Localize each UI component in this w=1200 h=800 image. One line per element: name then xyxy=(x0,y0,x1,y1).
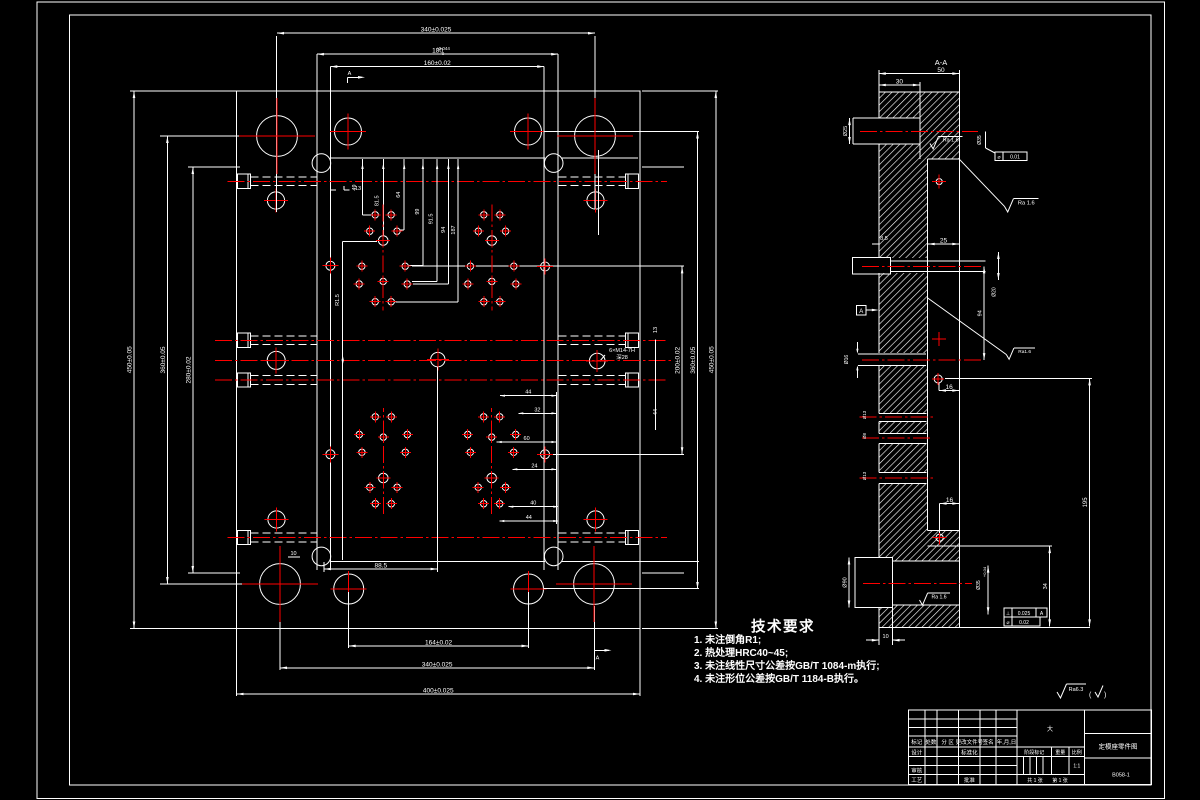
guide hole top-left xyxy=(239,98,315,174)
svg-text:30: 30 xyxy=(896,79,904,86)
pocket outer-left edge line xyxy=(316,54,318,570)
section hatching xyxy=(879,92,960,627)
section centerline hole6 xyxy=(860,477,935,479)
svg-text:Ø13: Ø13 xyxy=(862,471,867,480)
section centerline bushing2 xyxy=(862,265,984,267)
svg-text:195: 195 xyxy=(1083,497,1089,508)
svg-text:定模座零件图: 定模座零件图 xyxy=(1099,742,1138,751)
svg-text:Ø20: Ø20 xyxy=(992,287,998,297)
section bore left wall lower xyxy=(878,608,880,628)
leader med hole left xyxy=(342,241,377,560)
section hole circle y379 xyxy=(932,373,944,385)
section body top and right edges xyxy=(879,92,960,627)
tie bar row4 centerline xyxy=(228,537,668,539)
roughness bore xyxy=(920,593,951,605)
section hole3 xyxy=(856,342,926,378)
corner hole top-left xyxy=(264,189,288,213)
pocket inner-left edge line xyxy=(329,67,331,570)
ext line through corner hole top-right xyxy=(598,150,600,235)
guide hole bottom-left xyxy=(242,546,318,622)
dim 340 bottom xyxy=(280,606,594,670)
dim 16 upper xyxy=(939,383,959,392)
svg-text:10: 10 xyxy=(290,551,296,557)
svg-text:B058-1: B058-1 xyxy=(1112,773,1130,779)
tie bar row3 centerline xyxy=(215,379,667,381)
tie bar row1 centerline xyxy=(228,180,668,182)
svg-text:+0.04: +0.04 xyxy=(982,566,987,577)
label R1.5 left xyxy=(335,294,341,306)
pocket edge hole left-lower xyxy=(322,446,338,462)
dim phi16 hole3 xyxy=(844,355,850,365)
hole cluster bottom-left xyxy=(354,408,413,514)
pocket inner-right edge line xyxy=(543,67,545,570)
center horizontal centerline xyxy=(215,359,672,361)
section centerline hole3 xyxy=(862,359,984,361)
dim 94 right xyxy=(978,266,986,360)
svg-text:阶段标记: 阶段标记 xyxy=(1024,749,1044,756)
svg-text:400±0.025: 400±0.025 xyxy=(423,688,454,695)
red crosshair overlays xyxy=(239,98,633,622)
medium hole bottom-left xyxy=(331,571,367,607)
tie bar row3 xyxy=(237,373,638,387)
pocket bottom edge xyxy=(330,560,699,562)
svg-text:深28: 深28 xyxy=(616,353,628,361)
section line y546 xyxy=(928,545,1052,547)
corner hole top-right xyxy=(584,189,608,213)
svg-text:年,月,日: 年,月,日 xyxy=(997,738,1017,746)
svg-text:60: 60 xyxy=(524,436,530,442)
svg-text:99: 99 xyxy=(415,209,421,215)
dim 25 section xyxy=(928,238,960,257)
section hole6 lines xyxy=(879,473,927,484)
svg-text:批准: 批准 xyxy=(964,776,976,784)
section left edge mid4 xyxy=(878,422,880,434)
section bushing1 xyxy=(853,118,920,144)
svg-text:280±0.02: 280±0.02 xyxy=(185,356,192,383)
svg-text:4. 未注形位公差按GB/T 1184-B执行。: 4. 未注形位公差按GB/T 1184-B执行。 xyxy=(694,672,864,685)
svg-text:0.025: 0.025 xyxy=(1018,611,1031,617)
dim 8.5 section xyxy=(872,236,888,244)
guide hole bottom-right xyxy=(556,546,632,622)
svg-text:Ø8: Ø8 xyxy=(862,433,867,440)
dim 16 lower xyxy=(940,497,960,533)
plan plate outline xyxy=(237,91,641,629)
technical requirements text xyxy=(694,618,880,686)
section pocket bottom edge xyxy=(928,529,960,531)
svg-text:8.5: 8.5 xyxy=(880,236,888,242)
hole cluster top-right xyxy=(462,205,521,311)
dim phi90 bore left xyxy=(843,558,851,608)
svg-text:34: 34 xyxy=(1043,583,1049,589)
medium hole top-left xyxy=(330,114,366,150)
section arrow A bottom-right xyxy=(594,649,611,662)
svg-text:Ø16: Ø16 xyxy=(844,355,850,365)
extension line y454 right xyxy=(552,453,684,455)
svg-text:1. 未注倒角R1;: 1. 未注倒角R1; xyxy=(694,633,761,646)
section bottom edge xyxy=(879,626,1090,628)
section centerline hole5 xyxy=(862,437,933,439)
svg-text:R1.5: R1.5 xyxy=(335,294,341,306)
svg-text:第 1 张: 第 1 张 xyxy=(1052,777,1068,784)
section centerline hole4 xyxy=(860,416,935,418)
svg-text:Ø35: Ø35 xyxy=(977,135,983,145)
svg-text:A: A xyxy=(596,656,600,662)
pocket outer-right edge line xyxy=(557,54,559,570)
leader roughness pocket wall xyxy=(959,159,1038,212)
leader roughness pocket wall 2 xyxy=(928,298,1035,359)
svg-text:更改文件号: 更改文件号 xyxy=(956,738,984,746)
pocket edge hole right-upper xyxy=(537,259,553,275)
dim 360 left xyxy=(160,136,260,584)
dim 280 left xyxy=(185,167,240,573)
svg-text:40: 40 xyxy=(530,501,536,507)
tie bar row4 xyxy=(237,530,638,544)
svg-text:处数: 处数 xyxy=(925,738,937,746)
medium hole bottom-right xyxy=(511,571,547,607)
svg-text:88.5: 88.5 xyxy=(374,563,387,570)
svg-text:160±0.02: 160±0.02 xyxy=(424,60,451,67)
svg-text:A: A xyxy=(859,309,863,315)
svg-text:分 区: 分 区 xyxy=(941,738,954,746)
title block right section xyxy=(1085,710,1152,785)
dim 340 top xyxy=(277,27,596,212)
section arrow A top-left xyxy=(348,71,366,83)
L ticks pocket top-left xyxy=(331,186,350,190)
svg-text:13: 13 xyxy=(355,186,361,192)
section left edge mid3 xyxy=(878,366,880,414)
svg-text:360±0.05: 360±0.05 xyxy=(160,346,167,373)
dim 30 section top xyxy=(879,79,920,93)
center sprue hole xyxy=(427,349,449,371)
surface finish general note xyxy=(1057,684,1106,699)
dim 88.5 bottom pocket xyxy=(324,367,438,572)
section label A-A xyxy=(935,58,948,67)
extension line y266 right xyxy=(412,265,684,267)
svg-text:Ra6.3: Ra6.3 xyxy=(1069,687,1084,693)
svg-text:340±0.025: 340±0.025 xyxy=(421,27,452,34)
svg-text:Ø25: Ø25 xyxy=(843,126,849,136)
svg-text:32: 32 xyxy=(534,407,540,413)
hole cluster bottom-right xyxy=(462,408,521,514)
section bushing2 xyxy=(853,258,986,274)
svg-text:200±0.02: 200±0.02 xyxy=(675,346,682,373)
pocket edge hole left-upper xyxy=(322,258,338,274)
label 6xM14 xyxy=(600,348,635,361)
svg-text:Ra 1.6: Ra 1.6 xyxy=(943,138,959,144)
roughness top bushing xyxy=(930,136,962,149)
pocket edge hole right-lower xyxy=(537,446,553,462)
svg-text:360±0.05: 360±0.05 xyxy=(690,346,697,373)
small labels holes 456 xyxy=(862,410,867,480)
dim 400 bottom xyxy=(237,629,641,697)
svg-text:Ra1.6: Ra1.6 xyxy=(1018,349,1031,355)
pocket top edge xyxy=(330,157,638,159)
label phi35H7 top right xyxy=(977,132,995,154)
svg-text:187: 187 xyxy=(451,225,457,234)
title block grid xyxy=(909,710,1152,785)
dim 180 top xyxy=(317,46,558,56)
svg-text:50: 50 xyxy=(937,67,945,74)
side hole right middle M14 xyxy=(586,350,608,372)
svg-text:0.02: 0.02 xyxy=(1019,620,1029,626)
section left edge mid2 xyxy=(878,273,880,353)
side hole left middle xyxy=(263,347,289,373)
svg-text:⊥: ⊥ xyxy=(1006,611,1010,617)
dim 50 section top xyxy=(879,67,960,92)
svg-text:16: 16 xyxy=(946,497,954,504)
dim 200 right xyxy=(642,167,684,573)
svg-text:设计: 设计 xyxy=(911,748,923,756)
tie bar row2 xyxy=(237,333,638,347)
hole cluster top-left xyxy=(354,205,413,311)
svg-text:Ø35: Ø35 xyxy=(976,580,982,590)
svg-text:3. 未注线性尺寸公差按GB/T 1084-m执行;: 3. 未注线性尺寸公差按GB/T 1084-m执行; xyxy=(694,659,880,672)
svg-text:标记: 标记 xyxy=(911,738,923,746)
svg-text:10: 10 xyxy=(883,634,889,640)
tie bar row1 xyxy=(237,174,638,188)
svg-text:共 1 张: 共 1 张 xyxy=(1027,777,1043,784)
svg-text:Ra 1.6: Ra 1.6 xyxy=(1018,200,1035,206)
svg-text:91.5: 91.5 xyxy=(429,214,435,225)
dim 10 bottom xyxy=(866,627,905,645)
svg-text:签名: 签名 xyxy=(983,738,994,746)
label 13 top-left pocket xyxy=(355,186,361,192)
svg-text:25: 25 xyxy=(940,238,948,245)
svg-text:标准化: 标准化 xyxy=(961,748,978,756)
section hole cross y537 xyxy=(933,531,947,545)
svg-text:13: 13 xyxy=(653,327,659,333)
svg-text:81.5: 81.5 xyxy=(374,195,380,206)
section left edge mid5 xyxy=(878,444,880,473)
dim 164 bottom xyxy=(349,592,529,648)
svg-text:0.01: 0.01 xyxy=(1010,155,1020,161)
section hole cross y339 xyxy=(932,332,946,346)
svg-text:⌀: ⌀ xyxy=(997,155,1000,161)
dim phi20 bushing2 xyxy=(992,252,1000,297)
svg-text:340±0.025: 340±0.025 xyxy=(422,661,453,668)
svg-text:16: 16 xyxy=(946,384,954,391)
section left edge mid1 xyxy=(878,144,880,258)
dim 160 top xyxy=(330,60,544,68)
corner hole bottom-left xyxy=(265,508,289,532)
guide hole top-right xyxy=(557,98,633,174)
section bore box xyxy=(855,558,893,628)
svg-text:A: A xyxy=(348,71,352,77)
interior vertical dim chain top-left xyxy=(352,159,459,302)
dim 450 right xyxy=(642,91,718,629)
medium hole top-right xyxy=(510,114,546,150)
dim 195 far right xyxy=(945,378,1092,626)
section left edge lower xyxy=(878,484,880,558)
svg-text:比例: 比例 xyxy=(1072,749,1082,756)
pocket corner relief arc top-right xyxy=(544,154,563,173)
pocket corner relief arc bottom-left xyxy=(312,547,331,566)
svg-text:2. 热处理HRC40~45;: 2. 热处理HRC40~45; xyxy=(694,646,788,659)
svg-text:44: 44 xyxy=(526,515,532,521)
svg-text:64: 64 xyxy=(396,192,402,198)
svg-text:94: 94 xyxy=(978,310,984,316)
feature frame top xyxy=(995,152,1027,161)
section centerline bore xyxy=(863,582,972,584)
svg-text:450±0.05: 450±0.05 xyxy=(127,346,134,373)
svg-text:A-A: A-A xyxy=(935,58,948,67)
title block middle section xyxy=(1017,710,1085,785)
dim 360 right xyxy=(544,132,700,590)
section hole5 lines xyxy=(879,434,927,444)
title block left labels xyxy=(911,738,1016,784)
section hole4 lines xyxy=(879,414,927,422)
tie bar row2 centerline xyxy=(215,339,667,341)
svg-text:1:1: 1:1 xyxy=(1073,764,1080,770)
svg-text:Ø90: Ø90 xyxy=(843,577,849,587)
section bore slot lines xyxy=(893,561,960,605)
section left edge upper xyxy=(878,92,880,118)
svg-text:工艺: 工艺 xyxy=(911,777,923,784)
interior horizontal dims bottom-right xyxy=(497,390,559,524)
svg-text:450±0.05: 450±0.05 xyxy=(708,346,715,373)
svg-text:⌀: ⌀ xyxy=(1006,620,1009,626)
svg-text:164±0.02: 164±0.02 xyxy=(425,639,452,646)
section centerline bushing1 xyxy=(860,131,978,133)
svg-text:94: 94 xyxy=(441,227,447,233)
section bore step xyxy=(0,0,1,1)
svg-text:): ) xyxy=(1104,692,1106,699)
pocket corner relief arc bottom-right xyxy=(544,547,563,566)
svg-text:6×M14-7H: 6×M14-7H xyxy=(609,348,635,354)
svg-text:技术要求: 技术要求 xyxy=(751,618,815,636)
right-of-pocket small labels xyxy=(653,327,659,430)
dim 34 right xyxy=(1043,546,1051,626)
svg-text:Ra 1.6: Ra 1.6 xyxy=(932,594,947,600)
svg-text:大: 大 xyxy=(1047,725,1053,733)
section pocket wall xyxy=(927,159,929,530)
svg-text:24: 24 xyxy=(531,463,537,469)
dim phi25 bushing1 xyxy=(843,118,851,144)
section pocket top edge xyxy=(928,158,960,160)
svg-text:Ø13: Ø13 xyxy=(862,410,867,419)
feature frames bottom xyxy=(1004,608,1047,626)
svg-text:44: 44 xyxy=(525,390,531,396)
dim 450 left xyxy=(127,91,237,629)
section hole cross y181 xyxy=(932,175,946,189)
corner hole bottom-right xyxy=(584,508,608,532)
pocket corner relief arc top-left xyxy=(312,154,331,173)
dim phi35 bore xyxy=(976,566,989,615)
datum A box xyxy=(857,306,879,316)
label 10 bottom-left pocket xyxy=(288,551,300,557)
svg-text:审核: 审核 xyxy=(911,767,923,775)
section step line top xyxy=(919,92,921,159)
svg-text:重量: 重量 xyxy=(1055,749,1065,756)
